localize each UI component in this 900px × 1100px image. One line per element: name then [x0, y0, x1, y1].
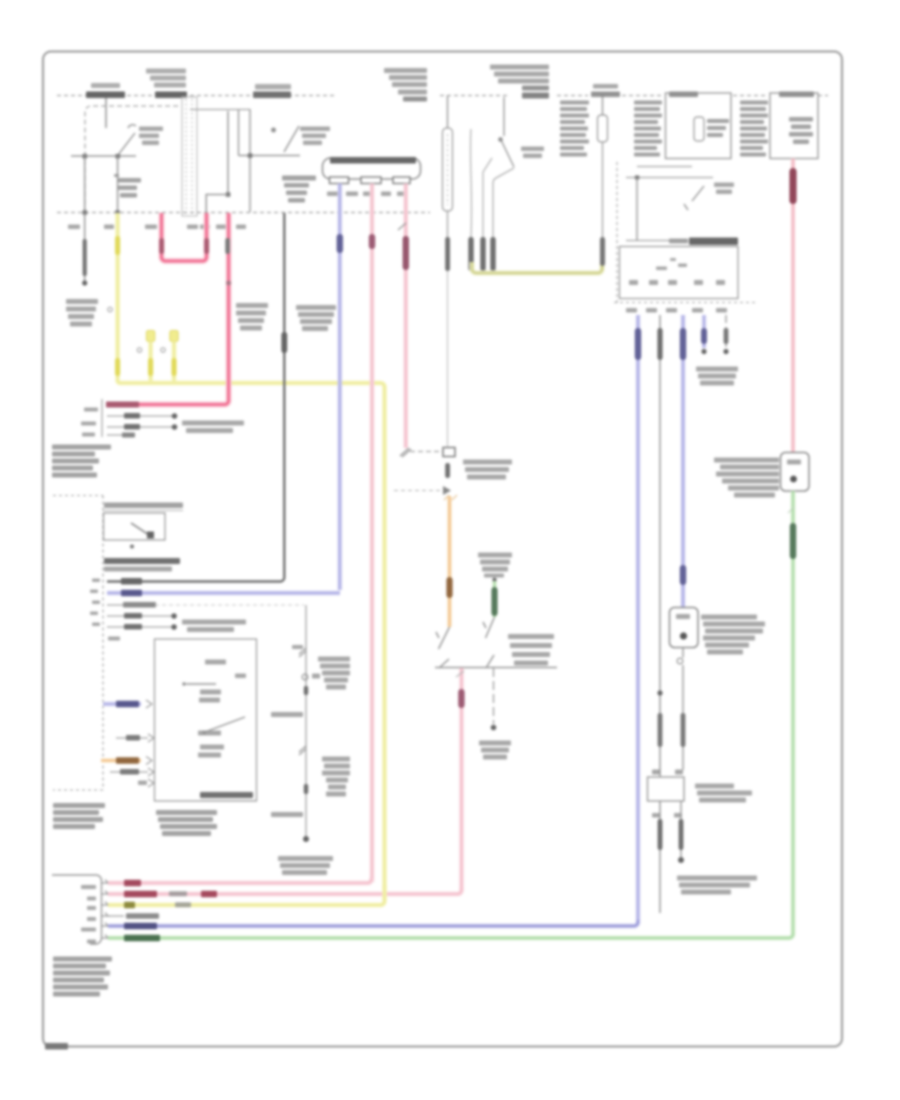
hot-in-on bus (dashed rail, y=212) — [57, 212, 430, 214]
node J1 — [83, 154, 88, 159]
wire link bar y668 — [435, 667, 557, 669]
wire pink relay3 (x406 down to y448) — [398, 184, 409, 449]
connector bracket forced entry (bottom-left) — [52, 875, 110, 944]
pin labels under box — [626, 308, 727, 313]
label courtesy right block2 — [322, 757, 350, 797]
label engine control module (top middle) — [490, 65, 549, 99]
fuse box DOOR (top-right) — [770, 92, 818, 159]
assembly bottom dashed — [614, 302, 757, 304]
junction block feed stub — [105, 98, 107, 128]
ECU boundary dashed — [53, 496, 103, 791]
text block under ECU box2 — [156, 810, 217, 836]
wire left drop to bus2 — [84, 156, 86, 212]
text block main body ECU (left) — [52, 445, 111, 478]
label door lock cylinder sw — [695, 784, 752, 803]
wire yellow horizontal y382 then down x384 — [118, 381, 385, 901]
wire blue ECU row (y593 to x340) — [107, 590, 340, 596]
wire top rail B — [626, 177, 713, 179]
ECU conn row2 y416 — [107, 413, 177, 419]
connector block on x447 at y451 — [443, 448, 455, 479]
ECU door lock control sw upper — [103, 503, 183, 549]
label key cylinder mid — [521, 147, 544, 159]
wire yellow row y905 — [108, 885, 385, 908]
switch box door key lock/unlock — [670, 608, 699, 648]
ECU conn row4 y435 stub — [107, 433, 135, 438]
ECU upper box caption — [104, 558, 180, 572]
fuse label DC/CC — [253, 84, 291, 98]
node J2 — [116, 154, 121, 159]
wire blue stub y704 — [103, 700, 152, 708]
node bus J5 — [83, 210, 88, 215]
text stack left col2 — [634, 101, 662, 157]
label door key lock and unlock sw — [701, 615, 765, 655]
label ignition sw — [139, 127, 163, 146]
fuse DOME stub x603 — [598, 96, 608, 271]
fuse yellow stub 2 — [161, 331, 178, 383]
footer part number — [45, 1043, 68, 1050]
connector bracket ECU upper — [101, 399, 103, 437]
connector box dual (x647-684) — [648, 770, 685, 818]
wire wavy x483 — [480, 158, 492, 271]
label key unlock sw — [714, 183, 734, 195]
unlock warning switch body + label — [282, 176, 316, 203]
wire gray x681 below box to node — [678, 801, 684, 863]
wire gray stub y738 — [116, 734, 154, 742]
switch contact A (x450) — [436, 627, 450, 668]
wire top link band to x228 — [190, 109, 250, 111]
label right of ECU dots — [182, 620, 246, 633]
wire blue unlock (x683 to switch box) — [680, 315, 686, 607]
relay pin bump 3 — [393, 177, 410, 184]
switch contact B (x495 green) — [483, 617, 495, 668]
wire green trunk (x793 down to y935) — [788, 491, 796, 933]
wire courtesy chain x306 — [299, 605, 320, 842]
wire bar x493 — [490, 237, 495, 271]
label HOT AT ALL TIMES / instrument panel J/B (right of relay) — [384, 68, 427, 102]
label trunk courtesy light (left of diode) — [714, 458, 779, 498]
wire red row y883 — [108, 878, 372, 886]
label noise filter (right of x447) — [463, 460, 512, 480]
label courtesy right block — [318, 657, 350, 690]
wire pink relay2 (x372 down to y882) — [369, 184, 375, 883]
text block forced entry label — [53, 957, 112, 997]
wire wavy x471 — [468, 129, 473, 271]
wire yellow main (bus to y382) — [108, 213, 120, 382]
label courtesy left small1 — [271, 712, 303, 717]
label right of black wire — [296, 305, 336, 331]
wire x637 drop — [636, 178, 638, 241]
wire orange stub y760 — [101, 757, 152, 765]
label luggage electrical key (right) — [508, 634, 554, 666]
key unlock switch contact — [684, 186, 704, 210]
relay box MAIN BODY (rounded) — [323, 157, 421, 179]
wire orange (x450 down to switch) — [444, 495, 457, 627]
wire red row y894 — [108, 888, 462, 897]
text stack left col1 — [560, 101, 589, 157]
wire blue lock (x638 down to y923) — [635, 315, 641, 920]
hot-at-all-times bus B+ (dashed power rail, top) — [57, 95, 828, 97]
wire stub row y916 — [108, 913, 159, 919]
row pin labels — [81, 408, 98, 437]
wire gray below key switch — [677, 648, 685, 771]
label courtesy pin small — [292, 645, 303, 649]
wire green row y938 — [108, 933, 793, 941]
wire x238 drop — [238, 110, 240, 156]
wire x228 drop — [227, 111, 229, 195]
pin chevron y783 — [138, 779, 154, 787]
relay pin bump 2 — [361, 177, 381, 184]
label under x84 wire — [66, 299, 98, 327]
node J4 — [248, 153, 253, 158]
ECU inner box2 (key-off sw) — [155, 639, 257, 801]
label luggage room lamp — [479, 741, 511, 760]
wire gray lamp drop (x493 to dot) — [491, 668, 497, 730]
wire link y490 dashed with arrow — [394, 486, 451, 495]
wire gray courtesy drop x84 — [82, 213, 87, 286]
label courtesy left small2 — [271, 812, 303, 817]
label above green stub — [478, 553, 512, 578]
wire red battery (x793 down) — [789, 159, 796, 453]
harness shield band — [182, 97, 197, 216]
instrument panel junction block (box, top-left) — [85, 106, 180, 213]
wire gray stub y772 — [110, 768, 154, 776]
wire blue short (x704 to node) — [701, 315, 707, 354]
relay pin bump 1 — [330, 177, 349, 184]
wire gray short (x726 to node) — [723, 315, 728, 354]
wire pink406 junction chevron — [400, 448, 411, 457]
diode box right — [781, 453, 810, 492]
label key sw — [300, 127, 330, 146]
fuse label GAUGE on bus — [86, 83, 125, 98]
wire x250 drop to bus2 — [249, 109, 251, 212]
wire lgrn ECU row y605 — [107, 602, 304, 608]
wire red IG feed x228 down to y404 — [106, 213, 231, 408]
wire top rail A — [637, 166, 692, 168]
ECU conn row3 y427 — [107, 424, 177, 430]
node rail — [635, 175, 639, 179]
ignition switch contact (relay IG) — [118, 125, 136, 155]
wire ECU row y627 — [107, 624, 177, 630]
label right of red wire node — [236, 303, 268, 331]
key cylinder switch mid — [493, 97, 514, 237]
wire gray drop x227 (short seg above red) — [225, 238, 230, 254]
wire black IG to ECU — [107, 213, 287, 585]
wire blue combination (x340 down to y590) — [337, 184, 343, 591]
key cylinder lower box — [620, 247, 739, 299]
wire pink unlock sense (x462 down) — [456, 668, 465, 890]
wire link y451 to x447 — [410, 451, 444, 453]
fuse label ECU-IG (I/P J/B) — [146, 69, 187, 99]
label anti-theft (right of nodes) — [696, 367, 738, 386]
ECU pin numbers left — [90, 579, 120, 641]
wire across relay row — [71, 155, 136, 157]
text stack left col3 — [740, 101, 768, 157]
wire green stub (x495 from lamp sym) — [491, 578, 497, 617]
relay coil AM1 symbol + label — [114, 174, 141, 198]
label below courtesy dot — [278, 856, 333, 875]
wire red U (ACC jumper) — [159, 213, 209, 261]
label 15A DOME — [591, 84, 620, 97]
wire gray key sense (x660 down) — [657, 315, 662, 913]
wire drop x117 to bus2 — [117, 156, 119, 212]
wire blue row y926 — [108, 920, 638, 929]
node J3 — [226, 192, 231, 197]
wire row y240 with bold label — [626, 238, 738, 246]
wire olive bus y273 — [472, 262, 602, 273]
fuse yellow stub 1 — [137, 331, 154, 383]
fuse box ECU-B (mid-right) — [666, 92, 732, 159]
pin labels below bus2 — [68, 225, 246, 230]
fusible link MAIN (tall fuse x447) — [443, 96, 453, 449]
relay pin labels — [327, 192, 404, 197]
text block ECU lower-left — [53, 803, 105, 829]
node bus J6 — [115, 210, 120, 215]
assembly boundary key cylinder (dashed left edge) — [616, 162, 618, 303]
note with main footnote — [677, 876, 757, 895]
wire row y155 — [239, 155, 301, 157]
key switch contact — [272, 126, 299, 152]
wire jog to x206 — [206, 195, 228, 213]
wire ECU row y616 — [107, 613, 177, 619]
label right of dots y416/427 — [182, 421, 244, 434]
